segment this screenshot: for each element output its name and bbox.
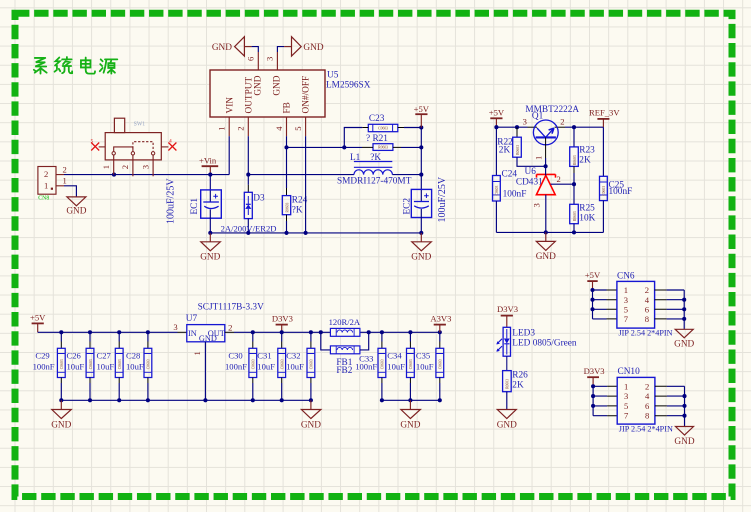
svg-text:ON#/OFF: ON#/OFF <box>302 76 312 114</box>
junction <box>304 231 308 235</box>
svg-text:GND: GND <box>273 75 283 95</box>
svg-text:3: 3 <box>624 391 628 401</box>
power port +5V (cn6) <box>585 270 601 290</box>
svg-text:4: 4 <box>274 126 284 131</box>
junction <box>494 125 498 129</box>
capacitor C30 <box>225 332 257 400</box>
resistor R22 <box>497 127 545 166</box>
power port +Vin <box>199 156 218 175</box>
wire pin1 riser <box>228 136 230 174</box>
svg-text:2: 2 <box>236 126 246 130</box>
pin ON#/OFF 5 <box>293 76 312 136</box>
svg-text:3: 3 <box>173 322 177 332</box>
svg-text:U7: U7 <box>186 314 198 324</box>
ground (below EC2) <box>411 233 431 263</box>
junction <box>682 298 686 302</box>
svg-text:CD431: CD431 <box>516 177 543 187</box>
node +Vin junction <box>208 173 212 177</box>
svg-text:LED3: LED3 <box>512 328 535 338</box>
junction <box>682 394 686 398</box>
svg-text:LED 0805/Green: LED 0805/Green <box>512 339 577 349</box>
svg-text:GND: GND <box>212 43 232 53</box>
wires CN10 right pins to gnd <box>655 386 687 426</box>
svg-text:5: 5 <box>91 139 94 145</box>
svg-text:C0603: C0603 <box>495 186 499 196</box>
junction <box>682 414 686 418</box>
junction <box>146 330 150 334</box>
gnd rail (a3v3) <box>382 399 440 401</box>
svg-text:D3V3: D3V3 <box>584 366 605 376</box>
pin OUTPUT 2 <box>236 77 255 137</box>
svg-text:GND: GND <box>497 420 517 430</box>
svg-text:C0603: C0603 <box>602 186 606 196</box>
junction <box>515 125 519 129</box>
svg-text:C28: C28 <box>126 350 140 360</box>
junction <box>309 398 313 402</box>
junction EC1 bottom <box>208 231 212 235</box>
junction <box>544 164 548 168</box>
capacitor C35 <box>416 332 444 400</box>
capacitor C34 <box>387 332 414 400</box>
svg-text:SW1: SW1 <box>134 122 146 128</box>
svg-text:FB2: FB2 <box>336 366 352 376</box>
ground (below CN8) <box>66 197 86 216</box>
svg-text:C0603: C0603 <box>381 359 385 369</box>
svg-text:10uF: 10uF <box>126 361 144 371</box>
junction <box>572 230 576 234</box>
junction <box>408 330 412 334</box>
power port A3V3 <box>430 313 451 332</box>
svg-text:GND: GND <box>400 420 420 430</box>
junction <box>203 398 207 402</box>
no-connect X pin4 <box>161 139 176 151</box>
svg-text:1: 1 <box>624 285 628 295</box>
ground (below EC1) <box>200 233 220 263</box>
capacitor C32 <box>286 332 315 400</box>
power port D3V3 (cn10) <box>584 366 605 387</box>
svg-text:+5V: +5V <box>489 108 505 118</box>
svg-text:10uF: 10uF <box>97 361 115 371</box>
junction <box>682 317 686 321</box>
svg-text:3: 3 <box>264 57 274 61</box>
capacitor C25 <box>600 176 633 232</box>
svg-text:R0603: R0603 <box>573 155 577 165</box>
wire pin5 to gnd rail <box>305 136 307 233</box>
ground (right power-gnd triangle above U5) <box>284 37 324 56</box>
wire switch node horizontal to L1 <box>248 174 354 176</box>
wire REF_3V riser down to C25 <box>602 127 604 176</box>
svg-text:2: 2 <box>120 165 130 169</box>
svg-text:7: 7 <box>624 314 629 324</box>
svg-text:GND: GND <box>303 43 323 53</box>
junction <box>88 330 92 334</box>
junction <box>309 330 313 334</box>
svg-text:EC1: EC1 <box>190 198 200 215</box>
junction <box>419 125 423 129</box>
wire +5V to CN6 pins <box>590 288 616 319</box>
connector CN8 <box>38 164 67 201</box>
svg-text:EC2: EC2 <box>403 198 413 215</box>
svg-text:D3: D3 <box>253 193 265 203</box>
title 系统电源 <box>34 57 117 74</box>
svg-text:100uF/25V: 100uF/25V <box>165 178 176 224</box>
svg-text:10uF: 10uF <box>416 361 434 371</box>
svg-text:C24: C24 <box>502 170 518 180</box>
svg-text:5: 5 <box>624 401 628 411</box>
wire +5V to Q1 collector <box>496 126 527 128</box>
capacitor C23 <box>344 114 421 147</box>
svg-text:C0603: C0603 <box>89 359 93 369</box>
resistor R25 <box>570 184 596 232</box>
svg-text:GND: GND <box>301 420 321 430</box>
LED LED3 <box>496 327 577 356</box>
junction <box>146 398 150 402</box>
junction <box>112 173 116 177</box>
ground (below C32) <box>301 400 321 430</box>
svg-text:GND: GND <box>66 206 86 216</box>
svg-text:3: 3 <box>140 165 150 169</box>
svg-text:3: 3 <box>532 203 542 207</box>
svg-text:8: 8 <box>645 314 649 324</box>
svg-text:1: 1 <box>217 126 227 130</box>
svg-text:2: 2 <box>63 164 67 174</box>
junction <box>590 288 594 292</box>
wire FB net <box>286 136 288 188</box>
junction <box>544 230 548 234</box>
power port +5V (buck output) <box>414 104 430 128</box>
svg-text:+5V: +5V <box>414 104 430 114</box>
regulator U7 SCJT1117B-3.3V <box>186 302 264 400</box>
capacitor C33 <box>355 332 386 400</box>
wire +5V rail to U7 <box>38 331 178 333</box>
svg-text:100uF/25V: 100uF/25V <box>437 176 448 222</box>
svg-text:2K: 2K <box>499 146 511 156</box>
svg-text:C29: C29 <box>35 350 49 360</box>
connector CN10 <box>617 367 673 434</box>
inductor L1 <box>337 153 421 187</box>
svg-text:2: 2 <box>645 285 649 295</box>
junction <box>682 307 686 311</box>
junction <box>408 398 412 402</box>
svg-text:R0603: R0603 <box>506 379 510 389</box>
power port D3V3 <box>272 313 293 332</box>
svg-text:R0603: R0603 <box>516 145 520 155</box>
junction <box>88 398 92 402</box>
shunt reference U6 CD431 <box>516 166 574 232</box>
svg-text:100nF: 100nF <box>225 361 247 371</box>
svg-text:120R/2A: 120R/2A <box>329 317 361 327</box>
svg-text:4: 4 <box>645 391 650 401</box>
svg-text:A3V3: A3V3 <box>430 313 451 323</box>
capacitor C31 <box>257 332 285 400</box>
pin VIN 1 <box>217 97 236 137</box>
svg-text:7: 7 <box>624 411 629 421</box>
svg-text:JIP 2.54 2*4PIN: JIP 2.54 2*4PIN <box>619 328 673 337</box>
svg-text:FB: FB <box>283 102 293 113</box>
svg-text:U5: U5 <box>327 71 339 81</box>
svg-text:100nF: 100nF <box>503 190 527 200</box>
wire U7 out rail <box>234 331 440 333</box>
svg-text:C26: C26 <box>67 350 82 360</box>
junction <box>367 330 371 334</box>
svg-text:R0603: R0603 <box>285 203 289 213</box>
junction <box>284 145 288 149</box>
ferrite bead FB1 <box>319 317 361 336</box>
svg-text:SCJT1117B-3.3V: SCJT1117B-3.3V <box>198 302 264 312</box>
svg-text:10uF: 10uF <box>387 361 405 371</box>
svg-text:C0603: C0603 <box>147 359 151 369</box>
svg-text:C0603: C0603 <box>281 359 285 369</box>
wire main input net <box>64 174 229 176</box>
svg-text:2K: 2K <box>512 380 524 390</box>
svg-text:C0603: C0603 <box>60 359 64 369</box>
junction <box>572 125 576 129</box>
svg-text:6: 6 <box>245 56 255 61</box>
svg-text:U6: U6 <box>525 167 537 177</box>
svg-text:3: 3 <box>523 117 527 127</box>
svg-text:6: 6 <box>645 401 650 411</box>
svg-text:VIN: VIN <box>225 97 235 114</box>
svg-text:C0603: C0603 <box>409 359 413 369</box>
svg-text:10K: 10K <box>579 214 595 224</box>
svg-text:C0603: C0603 <box>252 359 256 369</box>
wires CN6 right pins to gnd <box>655 290 687 329</box>
capacitor C28 <box>126 332 152 400</box>
svg-text:2K: 2K <box>579 156 591 166</box>
svg-text:1: 1 <box>44 181 48 191</box>
svg-text:8: 8 <box>645 411 649 421</box>
junction <box>280 398 284 402</box>
svg-text:1: 1 <box>533 156 543 160</box>
transistor Q1 <box>523 105 580 160</box>
gnd rail (ldo left) <box>61 399 311 401</box>
svg-text:4: 4 <box>169 139 172 145</box>
pin GND 3 (top) <box>264 52 282 96</box>
ground (below C34) <box>400 400 420 430</box>
svg-text:GND: GND <box>51 420 71 430</box>
svg-text:1: 1 <box>101 165 111 169</box>
svg-text:?K: ?K <box>292 205 303 215</box>
svg-text:GND: GND <box>411 253 431 263</box>
svg-text:IN: IN <box>188 329 197 338</box>
svg-text:GND: GND <box>253 75 263 95</box>
junction <box>419 145 423 149</box>
wire D3V3 to CN10 pins <box>591 384 617 415</box>
wire pin3 to right gnd <box>277 47 284 52</box>
svg-text:2: 2 <box>228 323 232 333</box>
svg-text:10uF: 10uF <box>286 361 304 371</box>
svg-text:R25: R25 <box>579 204 595 214</box>
svg-text:D3V3: D3V3 <box>272 313 293 323</box>
svg-text:GND: GND <box>536 252 556 262</box>
wire led to R26 <box>506 356 508 370</box>
junction <box>438 330 442 334</box>
capacitor C26 <box>67 332 94 400</box>
junction <box>59 398 63 402</box>
svg-text:R0603: R0603 <box>378 146 388 150</box>
ferrite bead FB2 <box>321 332 369 376</box>
svg-text:C0603: C0603 <box>378 127 388 131</box>
svg-text:2: 2 <box>560 117 564 127</box>
power port +5V (bottom left) <box>30 313 46 333</box>
svg-text:C34: C34 <box>387 350 402 360</box>
diode D3 <box>221 185 277 234</box>
svg-text:1: 1 <box>624 381 628 391</box>
junction <box>284 231 288 235</box>
capacitor C29 <box>33 332 66 400</box>
svg-text:C23: C23 <box>369 114 385 124</box>
svg-text:GND: GND <box>199 334 217 343</box>
resistor R26 <box>503 370 529 409</box>
junction <box>419 173 423 177</box>
svg-text:R0603: R0603 <box>573 211 577 221</box>
junction <box>117 330 121 334</box>
svg-text:10uF: 10uF <box>67 361 85 371</box>
ground (below C29) <box>51 400 71 430</box>
svg-text:C0603: C0603 <box>439 359 443 369</box>
wire pin6 to left gnd <box>252 47 259 52</box>
svg-text:CN10: CN10 <box>618 367 641 377</box>
junction <box>590 307 594 311</box>
svg-text:3: 3 <box>624 295 628 305</box>
junction <box>251 330 255 334</box>
wire CN8 pin1 to gnd <box>64 186 76 197</box>
junction <box>682 404 686 408</box>
junction <box>319 330 323 334</box>
wire +5V riser <box>420 128 422 202</box>
no-connect X pin5 <box>91 139 106 151</box>
svg-text:2: 2 <box>645 381 649 391</box>
svg-text:R23: R23 <box>579 146 595 156</box>
power port +5V (right) <box>489 108 505 128</box>
svg-text:R26: R26 <box>512 370 528 380</box>
svg-text:100nF: 100nF <box>355 361 377 371</box>
ground (cn6) <box>674 329 694 349</box>
svg-text:5: 5 <box>293 126 303 130</box>
svg-text:+5V: +5V <box>30 313 46 323</box>
junction <box>572 182 576 186</box>
svg-text:C0603: C0603 <box>310 359 314 369</box>
svg-text:SMDRI127-470MT: SMDRI127-470MT <box>337 177 412 187</box>
IC U5 LM2596SX body <box>210 70 371 117</box>
junction <box>117 398 121 402</box>
ground (cn10) <box>674 427 694 447</box>
svg-text:+Vin: +Vin <box>199 156 217 166</box>
svg-text:D3V3: D3V3 <box>497 304 518 314</box>
svg-text:JIP 2.54 2*4PIN: JIP 2.54 2*4PIN <box>619 425 673 434</box>
svg-text:5: 5 <box>624 304 628 314</box>
svg-text:2: 2 <box>44 169 48 179</box>
connector CN6 <box>617 271 673 337</box>
junction <box>591 384 595 388</box>
junction <box>251 398 255 402</box>
svg-text:GND: GND <box>200 253 220 263</box>
junction <box>59 330 63 334</box>
resistor R24 <box>282 188 307 233</box>
switch SW1 <box>101 118 161 176</box>
capacitor C27 <box>97 332 124 400</box>
svg-text:C31: C31 <box>257 350 271 360</box>
wire Q1 base down <box>545 158 547 166</box>
junction <box>380 330 384 334</box>
power port REF_3V <box>589 108 620 128</box>
wire pin2 to switch node <box>247 136 249 185</box>
svg-text:1: 1 <box>192 351 202 355</box>
gnd rail (buck section) <box>210 232 421 234</box>
ground (left power-gnd triangle above U5) <box>212 37 252 56</box>
svg-text:+5V: +5V <box>585 270 601 280</box>
svg-text:100nF: 100nF <box>33 361 55 371</box>
svg-text:C35: C35 <box>416 350 430 360</box>
capacitor EC2 <box>403 176 449 233</box>
svg-text:6: 6 <box>645 304 650 314</box>
resistor R23 <box>570 127 595 184</box>
junction <box>438 398 442 402</box>
svg-text:10uF: 10uF <box>257 361 275 371</box>
junction <box>246 173 250 177</box>
svg-text:LM2596SX: LM2596SX <box>326 81 371 91</box>
ground (ref section) <box>536 232 556 262</box>
svg-text:100nF: 100nF <box>609 187 633 197</box>
junction <box>591 394 595 398</box>
svg-text:C32: C32 <box>286 350 300 360</box>
pin GND 6 (top) <box>245 52 263 96</box>
wire Q1 emitter to REF_3V <box>555 126 566 128</box>
junction <box>342 145 346 149</box>
pin FB 4 <box>274 102 293 136</box>
junction <box>419 231 423 235</box>
capacitor C24 <box>493 127 527 232</box>
svg-text:1: 1 <box>63 176 67 186</box>
ground (below R26) <box>497 410 517 431</box>
junction <box>591 404 595 408</box>
svg-text:C0603: C0603 <box>118 359 122 369</box>
gnd rail (ref section) <box>496 231 603 233</box>
junction <box>280 330 284 334</box>
power port D3V3 (led) <box>497 304 518 327</box>
svg-text:4: 4 <box>645 295 650 305</box>
svg-text:C30: C30 <box>228 350 242 360</box>
svg-text:REF_3V: REF_3V <box>589 108 620 118</box>
svg-text:2: 2 <box>556 174 560 184</box>
svg-text:? R21: ? R21 <box>366 134 388 144</box>
svg-text:GND: GND <box>674 437 694 447</box>
svg-text:CN8: CN8 <box>38 195 49 201</box>
junction <box>246 231 250 235</box>
capacitor EC1 <box>165 175 221 233</box>
svg-text:GND: GND <box>674 339 694 349</box>
svg-text:C27: C27 <box>97 350 112 360</box>
junction <box>590 298 594 302</box>
svg-text:CN6: CN6 <box>617 271 635 281</box>
junction <box>380 398 384 402</box>
resistor R21 <box>362 134 421 163</box>
